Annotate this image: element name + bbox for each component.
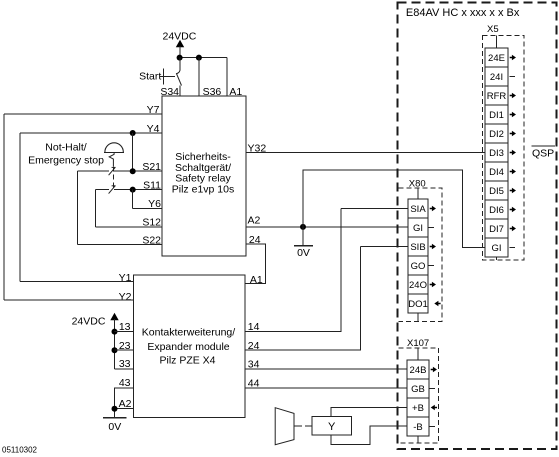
svg-text:GI: GI: [491, 243, 501, 254]
svg-text:+B: +B: [412, 403, 424, 414]
terminal strip X107 (dashed enclosure): [399, 338, 439, 443]
svg-text:DI7: DI7: [489, 224, 504, 235]
ground 0V (left): [103, 418, 127, 433]
svg-text:Expander module: Expander module: [147, 341, 229, 353]
svg-text:Start: Start: [139, 71, 161, 83]
wire Y7: [4, 104, 162, 116]
X80 stub top: [417, 188, 419, 199]
ground 0V (right): [294, 227, 313, 259]
node A2 / 0V junction: [300, 224, 306, 230]
svg-text:Y1: Y1: [119, 272, 132, 284]
svg-text:GI: GI: [413, 223, 423, 234]
wire S12: [95, 217, 162, 229]
wire Y4: [20, 123, 162, 135]
svg-text:X5: X5: [487, 24, 499, 35]
svg-text:DI4: DI4: [489, 167, 504, 178]
wire A2 (expander): [115, 398, 134, 410]
24VDC supply label (left): [72, 313, 119, 369]
svg-text:DI5: DI5: [489, 186, 504, 197]
svg-text:DI6: DI6: [489, 205, 504, 216]
wire relay 24 to expander A1: [245, 234, 266, 286]
safety relay U1 Pilz e1vp 10s: [162, 96, 246, 256]
svg-text:DO1: DO1: [408, 299, 428, 310]
X80 stub bottom: [417, 313, 419, 322]
wire A1: [226, 58, 228, 96]
wire A2 branch to X5 GI: [303, 170, 485, 248]
contact ES1 blade: [109, 167, 116, 175]
wire S36: [198, 58, 200, 96]
wire S11: [95, 179, 162, 191]
wire Y4 tap down to S21: [132, 133, 134, 171]
svg-text:0V: 0V: [108, 421, 121, 433]
svg-text:Kontakterweiterung/: Kontakterweiterung/: [142, 327, 235, 339]
node S21 tap: [130, 168, 136, 174]
svg-text:24B: 24B: [410, 365, 427, 376]
wire 34 to 24B: [245, 359, 407, 371]
wire 43 to A2 loop: [115, 377, 134, 418]
svg-text:GO: GO: [411, 261, 426, 272]
switch Start (NO pushbutton): [139, 58, 181, 96]
svg-text:QSP: QSP: [532, 148, 554, 160]
wire Y6: [133, 190, 162, 210]
brake horn symbol: [275, 408, 294, 445]
signal QSP: [532, 146, 556, 160]
wire second-left vertical Y4 to Y1: [19, 133, 21, 282]
wire 33: [115, 358, 134, 370]
wire S21: [78, 161, 163, 173]
svg-text:Emergency stop: Emergency stop: [28, 155, 104, 167]
X5 arrows: [510, 55, 517, 248]
wire 24 to SIB: [245, 246, 360, 351]
svg-text:24I: 24I: [490, 72, 503, 83]
expander module U2 Pilz PZE X4: [134, 275, 246, 418]
svg-text:DI3: DI3: [489, 148, 504, 159]
svg-text:24E: 24E: [488, 53, 505, 64]
24VDC supply label (top): [163, 31, 197, 58]
svg-text:Pilz e1vp 10s: Pilz e1vp 10s: [172, 184, 234, 196]
X5 stub bottom: [496, 257, 498, 260]
svg-text:GB: GB: [411, 384, 425, 395]
svg-text:43: 43: [119, 377, 131, 389]
terminal strip X5 (dashed enclosure): [482, 24, 524, 260]
svg-text:DI2: DI2: [489, 129, 504, 140]
wire Y coil to -B: [331, 426, 407, 445]
node S11 tap: [130, 187, 136, 193]
svg-text:SIA: SIA: [410, 204, 426, 215]
terminal X80 cells: [408, 199, 428, 313]
terminal strip X80 (dashed enclosure): [399, 178, 443, 321]
emergency stop mushroom actuator: [104, 143, 124, 188]
wire Y1: [20, 272, 134, 284]
wire A2 to X80 GI: [246, 215, 408, 227]
wire S22: [78, 234, 163, 246]
node Y4 tap: [130, 130, 136, 136]
terminal X107 cells: [407, 360, 429, 436]
X80 arrows: [429, 206, 441, 306]
svg-text:Y2: Y2: [119, 291, 132, 303]
svg-text:DI1: DI1: [489, 110, 504, 121]
wire 23: [115, 340, 134, 352]
label Not-Halt / Emergency stop: [28, 141, 104, 166]
wire Y2: [4, 291, 134, 303]
node junction S34 branch: [177, 55, 183, 61]
svg-text:33: 33: [119, 358, 131, 370]
svg-text:24O: 24O: [409, 280, 427, 291]
wire 13: [115, 321, 134, 333]
wire Y coil to +B: [331, 408, 407, 417]
contact ES2 blade: [109, 186, 116, 194]
svg-text:A2: A2: [248, 215, 261, 227]
node 13 supply: [112, 329, 118, 335]
X107 stub top: [417, 348, 419, 360]
X5 stub top: [496, 36, 498, 49]
svg-text:E84AV HC x xxx x x Bx: E84AV HC x xxx x x Bx: [406, 7, 520, 19]
svg-text:X107: X107: [407, 338, 429, 349]
svg-text:RFR: RFR: [487, 91, 507, 102]
terminal X5 cells: [485, 48, 508, 257]
svg-text:05110302: 05110302: [2, 446, 38, 455]
brake coil Y: [312, 417, 352, 436]
node expander A2 / 0V: [112, 406, 118, 412]
svg-text:Y: Y: [328, 421, 336, 433]
X107 stub bottom: [417, 436, 419, 443]
svg-text:-B: -B: [413, 422, 423, 433]
wire 14 to SIA: [245, 208, 341, 333]
mechanical link dashed: [294, 425, 312, 427]
X107 arrows: [430, 367, 438, 427]
svg-text:24VDC: 24VDC: [72, 316, 106, 328]
wire SIB feed: [361, 245, 409, 247]
node junction S36 branch: [196, 55, 202, 61]
wire S11-left vertical to S12: [94, 190, 96, 227]
wire Y32 to DI3: [246, 142, 485, 154]
svg-text:0V: 0V: [297, 247, 310, 259]
wire far-left vertical Y7 to Y2: [3, 114, 5, 300]
drive enclosure E84AV HC x xxx x x Bx (dashed): [398, 3, 557, 450]
svg-text:SIB: SIB: [410, 242, 425, 253]
wire 44 to GB: [245, 378, 407, 390]
svg-text:A1: A1: [250, 274, 263, 286]
wire SIA feed: [341, 207, 408, 209]
svg-text:Pilz PZE X4: Pilz PZE X4: [159, 354, 215, 366]
wire top supply rail: [180, 57, 228, 59]
wire S21-left vertical to S22: [77, 171, 79, 244]
svg-text:Not-Halt/: Not-Halt/: [45, 141, 87, 153]
node 23 supply: [112, 347, 118, 353]
